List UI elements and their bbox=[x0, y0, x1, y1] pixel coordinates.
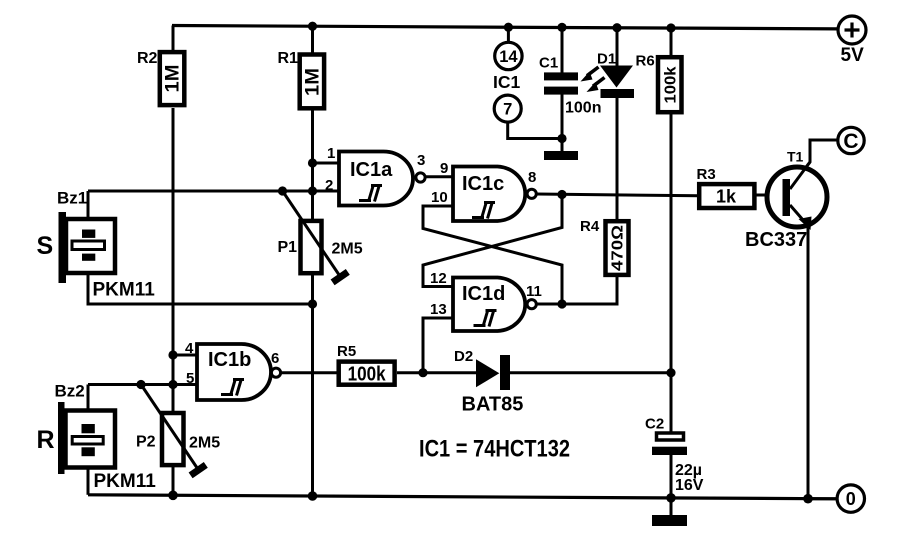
svg-text:11: 11 bbox=[526, 283, 542, 300]
svg-text:2: 2 bbox=[325, 177, 333, 194]
svg-text:R: R bbox=[37, 426, 55, 454]
svg-text:Bz2: Bz2 bbox=[55, 382, 85, 401]
svg-text:C: C bbox=[843, 130, 858, 153]
svg-text:R2: R2 bbox=[137, 50, 158, 67]
svg-text:R4: R4 bbox=[580, 218, 600, 235]
svg-text:IC1b: IC1b bbox=[208, 349, 251, 371]
svg-text:4: 4 bbox=[185, 340, 194, 357]
svg-text:PKM11: PKM11 bbox=[94, 471, 157, 492]
svg-text:7: 7 bbox=[503, 101, 512, 119]
svg-text:P1: P1 bbox=[278, 239, 298, 256]
svg-text:0: 0 bbox=[846, 489, 856, 509]
svg-text:100k: 100k bbox=[348, 364, 387, 386]
svg-text:14: 14 bbox=[499, 48, 518, 66]
svg-text:C1: C1 bbox=[539, 55, 558, 72]
svg-text:S: S bbox=[37, 232, 54, 260]
svg-text:P2: P2 bbox=[136, 434, 156, 451]
svg-text:2M5: 2M5 bbox=[332, 241, 363, 258]
svg-text:BC337: BC337 bbox=[745, 229, 807, 251]
svg-text:BAT85: BAT85 bbox=[462, 394, 524, 416]
svg-text:16V: 16V bbox=[675, 477, 704, 494]
svg-text:1k: 1k bbox=[716, 187, 737, 207]
svg-text:PKM11: PKM11 bbox=[93, 280, 156, 301]
svg-text:2M5: 2M5 bbox=[189, 435, 220, 452]
svg-text:Bz1: Bz1 bbox=[57, 189, 87, 208]
svg-text:R3: R3 bbox=[697, 166, 716, 183]
svg-text:5V: 5V bbox=[841, 45, 865, 66]
svg-text:R5: R5 bbox=[337, 343, 356, 360]
svg-text:13: 13 bbox=[430, 301, 447, 318]
svg-text:IC1a: IC1a bbox=[350, 159, 393, 181]
svg-text:IC1 = 74HCT132: IC1 = 74HCT132 bbox=[419, 436, 570, 463]
svg-text:470Ω: 470Ω bbox=[610, 225, 627, 271]
svg-text:6: 6 bbox=[271, 350, 279, 367]
svg-text:1M: 1M bbox=[163, 65, 184, 93]
svg-text:12: 12 bbox=[430, 270, 447, 287]
svg-text:5: 5 bbox=[186, 370, 194, 387]
svg-text:C2: C2 bbox=[645, 416, 664, 433]
svg-text:100k: 100k bbox=[663, 66, 680, 103]
svg-text:1: 1 bbox=[327, 145, 335, 162]
svg-text:8: 8 bbox=[528, 169, 536, 186]
svg-text:9: 9 bbox=[440, 160, 448, 177]
svg-text:10: 10 bbox=[431, 189, 448, 206]
svg-text:R6: R6 bbox=[636, 53, 655, 70]
svg-text:100n: 100n bbox=[565, 100, 601, 117]
svg-text:1M: 1M bbox=[303, 68, 324, 96]
svg-text:IC1c: IC1c bbox=[462, 173, 504, 195]
svg-text:IC1: IC1 bbox=[493, 72, 521, 92]
svg-text:D1: D1 bbox=[597, 51, 616, 68]
svg-text:3: 3 bbox=[417, 152, 425, 169]
svg-text:D2: D2 bbox=[454, 348, 473, 365]
svg-text:IC1d: IC1d bbox=[462, 283, 505, 305]
svg-text:R1: R1 bbox=[278, 50, 299, 67]
svg-text:T1: T1 bbox=[787, 149, 804, 165]
